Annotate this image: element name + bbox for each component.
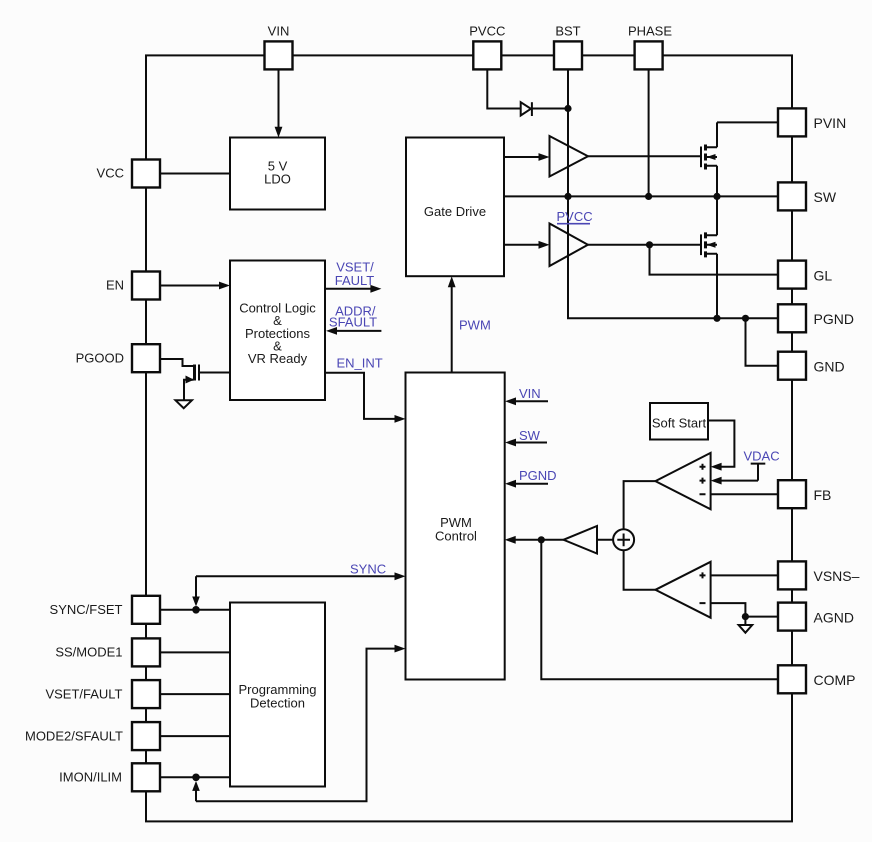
svg-text:Gate Drive: Gate Drive (424, 204, 486, 219)
svg-text:SS/MODE1: SS/MODE1 (55, 645, 122, 660)
svg-text:SYNC: SYNC (350, 561, 386, 576)
svg-text:PGOOD: PGOOD (76, 351, 124, 366)
svg-text:PGND: PGND (814, 311, 854, 327)
svg-text:GL: GL (814, 268, 833, 284)
svg-text:IMON/ILIM: IMON/ILIM (59, 770, 122, 785)
svg-text:MODE2/SFAULT: MODE2/SFAULT (25, 729, 123, 744)
svg-text:SW: SW (519, 428, 541, 443)
svg-text:PVCC: PVCC (469, 24, 505, 39)
svg-text:PHASE: PHASE (628, 24, 672, 39)
svg-text:Soft Start: Soft Start (652, 416, 707, 431)
svg-text:VIN: VIN (519, 386, 541, 401)
svg-text:VSNS–: VSNS– (814, 568, 860, 584)
svg-text:VIN: VIN (268, 24, 290, 39)
svg-text:VDAC: VDAC (744, 449, 780, 464)
svg-text:VSET/FAULT: VSET/FAULT (45, 687, 122, 702)
svg-text:VCC: VCC (97, 166, 124, 181)
svg-text:PGND: PGND (519, 468, 557, 483)
svg-text:GND: GND (814, 359, 845, 375)
svg-text:COMP: COMP (814, 672, 856, 688)
svg-text:EN: EN (106, 278, 124, 293)
svg-text:BST: BST (555, 24, 580, 39)
svg-text:PWM: PWM (459, 318, 491, 333)
svg-text:EN_INT: EN_INT (337, 356, 383, 371)
svg-text:FAULT: FAULT (335, 273, 375, 288)
svg-text:VR Ready: VR Ready (248, 351, 308, 366)
svg-text:SW: SW (814, 189, 837, 205)
svg-text:SFAULT: SFAULT (329, 315, 377, 330)
svg-text:PVCC: PVCC (557, 209, 593, 224)
svg-text:LDO: LDO (264, 171, 291, 186)
svg-text:FB: FB (814, 487, 832, 503)
svg-text:Detection: Detection (250, 696, 305, 711)
svg-text:PVIN: PVIN (814, 115, 847, 131)
svg-text:Control: Control (435, 529, 477, 544)
svg-text:AGND: AGND (814, 610, 854, 626)
svg-text:SYNC/FSET: SYNC/FSET (50, 602, 123, 617)
